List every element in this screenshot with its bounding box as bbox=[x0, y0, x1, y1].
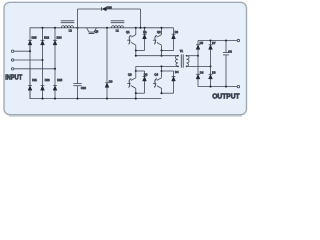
wire top rail bbox=[30, 28, 174, 51]
wire phase 2 bbox=[14, 59, 43, 61]
wire bypass riser left bbox=[77, 9, 79, 28]
diode D1 bbox=[143, 28, 147, 51]
node D7-outtop bbox=[209, 39, 211, 41]
svg-text:D4: D4 bbox=[175, 70, 179, 74]
node Q4 emitter bbox=[160, 92, 162, 94]
svg-text:D15: D15 bbox=[57, 78, 62, 82]
node C2 bottom bbox=[225, 86, 227, 88]
wire primary top (wire1) bbox=[136, 55, 178, 57]
wire primary bottom (wire2) bbox=[136, 65, 178, 67]
capacitor C2 bbox=[223, 41, 229, 87]
node B bbox=[106, 27, 108, 29]
input terminal 2 bbox=[11, 59, 13, 61]
node phase1-bridge bbox=[29, 50, 31, 52]
svg-text:D11: D11 bbox=[32, 78, 37, 82]
node Q1-wire1 bbox=[135, 55, 137, 57]
diode D2 bbox=[172, 28, 176, 51]
output terminal plus bbox=[237, 39, 239, 41]
node bottomrail D15 bbox=[54, 98, 56, 100]
diode D8 bbox=[209, 66, 213, 86]
card shadow bottom bbox=[9, 115, 242, 117]
svg-text:D1: D1 bbox=[143, 30, 147, 34]
wire output bottom rail bbox=[198, 86, 237, 88]
capacitor C10 bbox=[73, 28, 81, 99]
diode D16 bbox=[102, 7, 107, 11]
transformer T1 bbox=[175, 54, 189, 67]
wire Q1 emitter bracket bbox=[136, 50, 145, 52]
node Q3 emitter bbox=[135, 92, 137, 94]
wire phase 3 bbox=[14, 68, 55, 70]
svg-text:C2: C2 bbox=[228, 49, 232, 53]
wire Q3 emitter bracket bbox=[136, 92, 145, 94]
wire Q4 collector bracket bbox=[162, 70, 174, 72]
wire secondary bottom bbox=[187, 65, 211, 67]
node C2 top bbox=[225, 39, 227, 41]
wire Q3 collector bracket bbox=[136, 70, 145, 72]
diode D4 bbox=[172, 71, 176, 93]
input terminal 3 bbox=[11, 68, 13, 70]
svg-text:D3: D3 bbox=[144, 72, 148, 76]
node Q4 top bbox=[160, 70, 162, 72]
node Q2-wire1 bbox=[160, 55, 162, 57]
transistor Q5 bbox=[87, 28, 97, 34]
svg-text:Q4: Q4 bbox=[154, 72, 158, 76]
wire bypass top bbox=[78, 8, 141, 10]
diode D12 bbox=[41, 28, 45, 60]
node A bbox=[76, 27, 78, 29]
node Q1 collector bbox=[135, 27, 137, 29]
diode D14 bbox=[53, 28, 57, 69]
svg-text:C10: C10 bbox=[81, 86, 86, 90]
node primary bottom bbox=[177, 66, 179, 68]
inductor L1 bbox=[111, 21, 125, 28]
node secondary top to rectifier bbox=[197, 55, 199, 57]
svg-text:D5: D5 bbox=[200, 41, 204, 45]
node Q4-wire2 bbox=[160, 65, 162, 67]
node bypass-rail bbox=[139, 27, 141, 29]
wire bottom rail bbox=[30, 69, 162, 99]
svg-text:D7: D7 bbox=[212, 41, 216, 45]
diode D13 bbox=[41, 60, 45, 99]
diode D6 bbox=[196, 56, 200, 87]
svg-text:D2: D2 bbox=[175, 30, 179, 34]
svg-text:D16: D16 bbox=[107, 5, 112, 9]
wire Q2 emitter bracket bbox=[162, 50, 174, 52]
input terminal 1 bbox=[11, 50, 13, 52]
node secondary top bbox=[186, 55, 188, 57]
diode D9 bbox=[105, 28, 109, 99]
node rail D12 bbox=[41, 27, 43, 29]
diode D15 bbox=[53, 69, 57, 99]
wire Q2 to primary riser bbox=[161, 51, 163, 56]
diode D11 bbox=[28, 51, 32, 98]
node Q3-bottomrail bbox=[135, 98, 137, 100]
svg-text:Q2: Q2 bbox=[157, 30, 161, 34]
svg-text:L1: L1 bbox=[116, 29, 119, 33]
node phase2-bridge bbox=[41, 59, 43, 61]
wire Q3 riser from wire2 bbox=[135, 66, 137, 71]
svg-text:OUTPUT: OUTPUT bbox=[212, 92, 240, 100]
wire phase 1 bbox=[14, 50, 30, 52]
svg-text:D8: D8 bbox=[212, 70, 216, 74]
svg-text:D13: D13 bbox=[45, 78, 50, 82]
node C10-bottomrail bbox=[76, 98, 78, 100]
card background frame bbox=[4, 2, 247, 114]
diode D3 bbox=[143, 71, 147, 93]
node rail D14 bbox=[54, 27, 56, 29]
node Q2 emitter bbox=[160, 49, 162, 51]
node D8-outbottom bbox=[209, 86, 211, 88]
node primary top bbox=[177, 55, 179, 57]
transistor Q1 bbox=[127, 28, 136, 51]
node bottomrail D13 bbox=[41, 98, 43, 100]
node D1-rail bbox=[143, 27, 145, 29]
svg-text:D10: D10 bbox=[32, 36, 37, 40]
wire Q4 emitter bracket bbox=[162, 92, 174, 94]
node Q3 top bbox=[135, 70, 137, 72]
diode D10 bbox=[28, 40, 32, 51]
svg-text:D9: D9 bbox=[109, 80, 113, 84]
transistor Q2 bbox=[153, 28, 162, 51]
label OUTPUT bbox=[212, 92, 240, 100]
diode D7 bbox=[209, 41, 213, 67]
wire Q4 riser from wire2 bbox=[161, 66, 163, 71]
svg-text:D6: D6 bbox=[200, 70, 204, 74]
svg-text:T1: T1 bbox=[180, 49, 184, 53]
node phase3-bridge bbox=[54, 68, 56, 70]
node secondary bottom to rectifier bbox=[209, 65, 211, 67]
svg-text:L2: L2 bbox=[69, 28, 72, 32]
svg-text:INPUT: INPUT bbox=[5, 74, 22, 82]
diode D5 bbox=[196, 41, 200, 56]
transistor Q4 bbox=[153, 71, 162, 93]
wire bypass riser right bbox=[140, 9, 142, 28]
transistor Q3 bbox=[127, 71, 136, 93]
wire output top rail bbox=[198, 40, 237, 42]
node Q2 collector bbox=[160, 27, 162, 29]
wire secondary top bbox=[187, 55, 199, 57]
wire Q1 to primary riser bbox=[135, 51, 137, 56]
wire Q3 to bottom rail bbox=[135, 93, 137, 98]
output terminal minus bbox=[237, 85, 239, 87]
node D9-bottomrail bbox=[106, 98, 108, 100]
svg-text:Q5: Q5 bbox=[95, 30, 99, 34]
inductor L2 bbox=[61, 21, 75, 28]
label INPUT bbox=[5, 74, 22, 82]
svg-text:Q1: Q1 bbox=[126, 30, 130, 34]
svg-text:Q3: Q3 bbox=[128, 72, 132, 76]
node secondary bottom bbox=[186, 66, 188, 68]
node Q1 emitter bbox=[135, 49, 137, 51]
svg-text:D12: D12 bbox=[44, 36, 49, 40]
svg-text:D14: D14 bbox=[57, 36, 62, 40]
